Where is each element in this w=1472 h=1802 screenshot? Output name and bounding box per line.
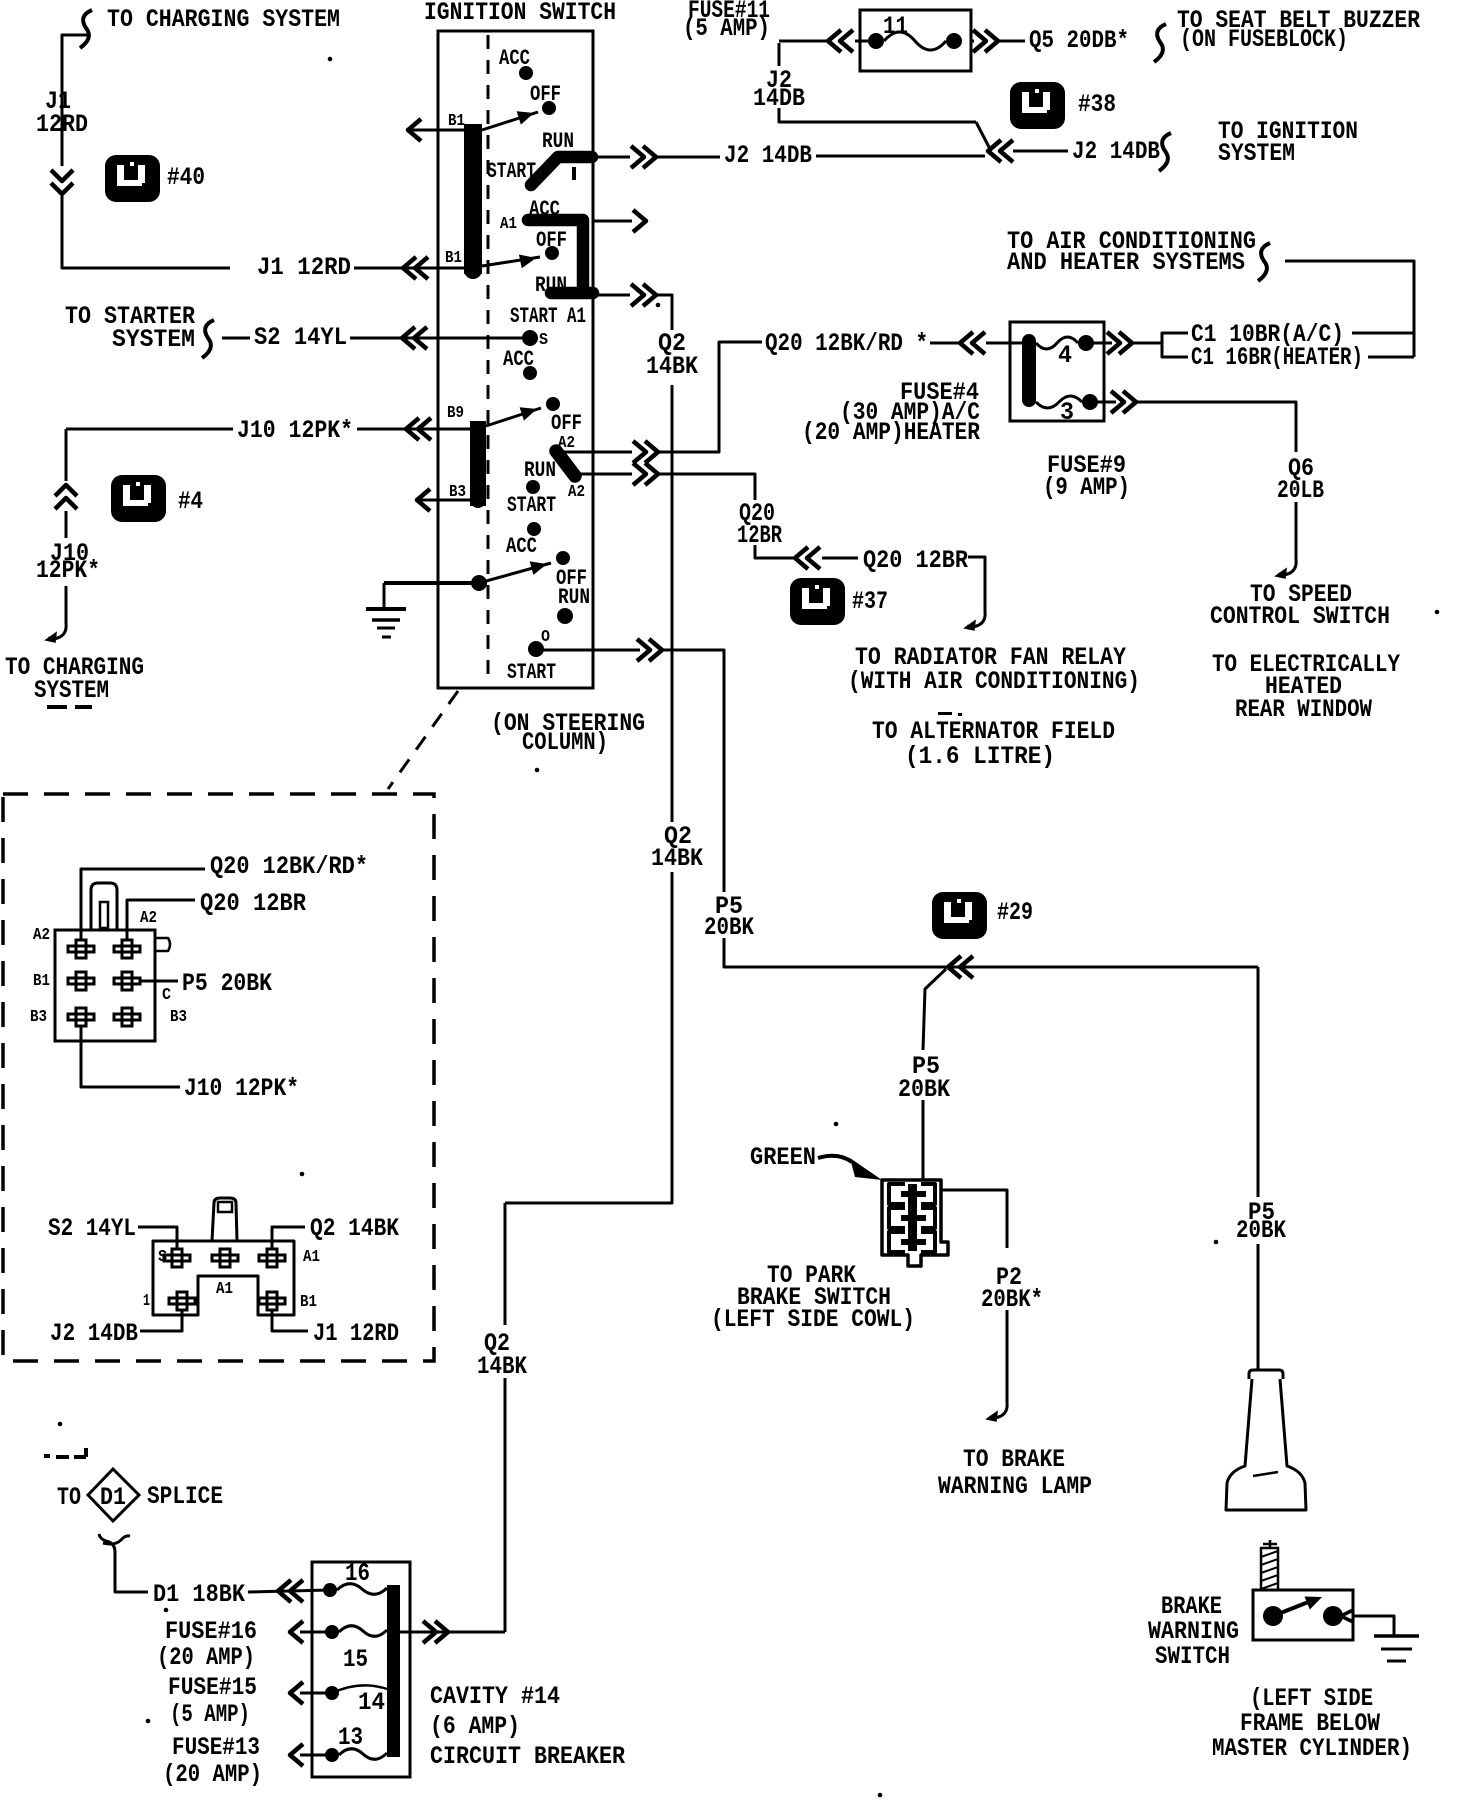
svg-text:CAVITY #14: CAVITY #14 bbox=[430, 1682, 560, 1711]
svg-text:15: 15 bbox=[343, 1645, 368, 1674]
svg-text:(20 AMP): (20 AMP) bbox=[163, 1760, 262, 1789]
svg-text:D1: D1 bbox=[100, 1483, 126, 1512]
svg-text:A1: A1 bbox=[303, 1248, 320, 1267]
svg-text:S: S bbox=[539, 331, 548, 350]
svg-text:FUSE#13: FUSE#13 bbox=[172, 1733, 260, 1762]
svg-text:14: 14 bbox=[358, 1688, 385, 1717]
svg-text:Q2 14BK: Q2 14BK bbox=[310, 1214, 399, 1243]
svg-text:J10 12PK*: J10 12PK* bbox=[237, 416, 353, 445]
svg-text:START A1: START A1 bbox=[510, 304, 586, 329]
svg-text:SYSTEM: SYSTEM bbox=[1218, 139, 1295, 168]
svg-text:(20 AMP)HEATER: (20 AMP)HEATER bbox=[802, 418, 980, 447]
svg-text:A2: A2 bbox=[568, 483, 585, 502]
svg-text:B9: B9 bbox=[447, 404, 464, 423]
svg-text:A2: A2 bbox=[140, 909, 157, 928]
svg-text:AND HEATER SYSTEMS: AND HEATER SYSTEMS bbox=[1007, 248, 1245, 277]
svg-text:(WITH AIR CONDITIONING): (WITH AIR CONDITIONING) bbox=[848, 667, 1140, 696]
svg-text:J2 14DB: J2 14DB bbox=[50, 1319, 138, 1348]
svg-text:S2 14YL: S2 14YL bbox=[254, 323, 347, 352]
svg-text:4: 4 bbox=[1058, 341, 1072, 370]
svg-text:#4: #4 bbox=[178, 487, 203, 516]
svg-text:A1: A1 bbox=[500, 215, 517, 234]
svg-text:J1 12RD: J1 12RD bbox=[257, 253, 351, 282]
svg-text:Q20 12BR: Q20 12BR bbox=[863, 546, 968, 575]
svg-text:MASTER CYLINDER): MASTER CYLINDER) bbox=[1212, 1734, 1412, 1763]
svg-text:#40: #40 bbox=[167, 163, 205, 192]
svg-text:TO CHARGING SYSTEM: TO CHARGING SYSTEM bbox=[107, 5, 340, 34]
svg-text:SYSTEM: SYSTEM bbox=[112, 325, 195, 354]
svg-text:12PK*: 12PK* bbox=[36, 556, 100, 585]
svg-text:RUN: RUN bbox=[524, 458, 556, 483]
svg-text:Q20 12BK/RD*: Q20 12BK/RD* bbox=[210, 852, 368, 881]
svg-text:J10 12PK*: J10 12PK* bbox=[184, 1074, 299, 1103]
svg-text:C1 16BR(HEATER): C1 16BR(HEATER) bbox=[1191, 343, 1363, 372]
svg-text:B1: B1 bbox=[445, 249, 462, 268]
svg-text:B1: B1 bbox=[33, 972, 50, 991]
svg-text:CONTROL SWITCH: CONTROL SWITCH bbox=[1210, 602, 1390, 631]
svg-text:#37: #37 bbox=[852, 587, 888, 616]
svg-text:S2 14YL: S2 14YL bbox=[48, 1214, 136, 1243]
svg-text:Q20 12BK/RD *: Q20 12BK/RD * bbox=[765, 329, 928, 358]
svg-text:14BK: 14BK bbox=[646, 352, 698, 381]
svg-text:TO BRAKE: TO BRAKE bbox=[963, 1445, 1065, 1474]
svg-text:A2: A2 bbox=[33, 926, 50, 945]
svg-text:A1: A1 bbox=[216, 1280, 233, 1299]
svg-text:20BK*: 20BK* bbox=[981, 1285, 1043, 1314]
svg-text:RUN: RUN bbox=[542, 129, 574, 154]
svg-text:3: 3 bbox=[1060, 398, 1074, 427]
svg-text:SYSTEM: SYSTEM bbox=[34, 676, 109, 705]
svg-text:B1: B1 bbox=[300, 1293, 317, 1312]
svg-text:J2 14DB: J2 14DB bbox=[1072, 137, 1160, 166]
svg-text:Q5 20DB*: Q5 20DB* bbox=[1029, 26, 1129, 55]
svg-text:TO: TO bbox=[57, 1483, 81, 1512]
svg-text:START: START bbox=[507, 660, 556, 685]
svg-text:D1 18BK: D1 18BK bbox=[153, 1580, 245, 1609]
svg-text:(ON FUSEBLOCK): (ON FUSEBLOCK) bbox=[1180, 25, 1348, 54]
svg-text:WARNING LAMP: WARNING LAMP bbox=[938, 1472, 1092, 1501]
svg-text:(20 AMP): (20 AMP) bbox=[157, 1643, 255, 1672]
svg-text:OFF: OFF bbox=[551, 411, 582, 436]
svg-text:FUSE#16: FUSE#16 bbox=[165, 1617, 257, 1646]
svg-text:C: C bbox=[162, 986, 171, 1005]
svg-text:ACC: ACC bbox=[506, 534, 537, 559]
svg-text:GREEN: GREEN bbox=[750, 1143, 816, 1172]
svg-text:B3: B3 bbox=[170, 1008, 187, 1027]
svg-text:(6 AMP): (6 AMP) bbox=[430, 1712, 520, 1741]
svg-text:14BK: 14BK bbox=[651, 844, 703, 873]
svg-text:FUSE#15: FUSE#15 bbox=[168, 1673, 257, 1702]
svg-text:SPLICE: SPLICE bbox=[147, 1482, 223, 1511]
svg-text:20BK: 20BK bbox=[898, 1075, 950, 1104]
svg-text:(1.6 LITRE): (1.6 LITRE) bbox=[905, 742, 1055, 771]
svg-text:(5 AMP): (5 AMP) bbox=[170, 1700, 250, 1729]
svg-text:P5 20BK: P5 20BK bbox=[182, 969, 272, 998]
svg-text:CIRCUIT BREAKER: CIRCUIT BREAKER bbox=[430, 1742, 625, 1771]
svg-text:12BR: 12BR bbox=[737, 521, 782, 550]
svg-text:J2 14DB: J2 14DB bbox=[724, 141, 812, 170]
svg-text:#29: #29 bbox=[997, 898, 1033, 927]
svg-text:SWITCH: SWITCH bbox=[1155, 1642, 1230, 1671]
svg-text:START: START bbox=[507, 493, 556, 518]
svg-text:Q20 12BR: Q20 12BR bbox=[200, 889, 306, 918]
svg-text:(9 AMP): (9 AMP) bbox=[1043, 473, 1130, 502]
svg-text:(LEFT SIDE COWL): (LEFT SIDE COWL) bbox=[711, 1305, 915, 1334]
svg-text:1: 1 bbox=[143, 1292, 150, 1311]
svg-text:#38: #38 bbox=[1078, 90, 1116, 119]
svg-text:(5 AMP): (5 AMP) bbox=[683, 14, 770, 43]
svg-text:RUN: RUN bbox=[558, 585, 590, 610]
svg-text:20LB: 20LB bbox=[1277, 476, 1324, 505]
svg-text:14BK: 14BK bbox=[477, 1352, 527, 1381]
svg-text:IGNITION SWITCH: IGNITION SWITCH bbox=[424, 0, 616, 27]
svg-text:J1 12RD: J1 12RD bbox=[313, 1319, 399, 1348]
svg-text:20BK: 20BK bbox=[1236, 1216, 1286, 1245]
svg-text:REAR WINDOW: REAR WINDOW bbox=[1235, 695, 1372, 724]
svg-text:B1: B1 bbox=[448, 112, 465, 131]
svg-text:B3: B3 bbox=[30, 1008, 47, 1027]
svg-text:20BK: 20BK bbox=[704, 913, 754, 942]
svg-text:COLUMN): COLUMN) bbox=[522, 728, 608, 757]
